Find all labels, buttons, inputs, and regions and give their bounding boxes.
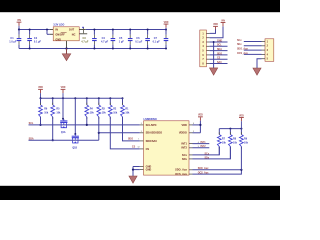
svg-text:OCS_Aux: OCS_Aux bbox=[175, 172, 187, 176]
svg-text:VDD: VDD bbox=[61, 87, 66, 89]
svg-text:GND: GND bbox=[217, 40, 222, 42]
svg-text:SCL: SCL bbox=[29, 122, 34, 125]
svg-text:INT2: INT2 bbox=[181, 146, 187, 150]
svg-text:10k: 10k bbox=[222, 141, 227, 144]
svg-text:SDA/SDI/SDO: SDA/SDI/SDO bbox=[146, 131, 163, 135]
svg-text:10k: 10k bbox=[102, 112, 107, 115]
svg-text:10k: 10k bbox=[90, 112, 95, 115]
svg-text:SDA: SDA bbox=[29, 137, 34, 140]
svg-text:SCx: SCx bbox=[182, 153, 188, 157]
svg-text:OCS_Aux: OCS_Aux bbox=[237, 52, 248, 55]
svg-text:SDO: SDO bbox=[217, 53, 222, 55]
svg-text:NC: NC bbox=[72, 33, 76, 36]
svg-text:VDD: VDD bbox=[38, 87, 43, 89]
svg-text:4.7 µF: 4.7 µF bbox=[101, 40, 109, 43]
svg-text:4.7 µF: 4.7 µF bbox=[81, 40, 89, 43]
svg-text:SDO_Aux: SDO_Aux bbox=[237, 48, 248, 51]
svg-text:GND: GND bbox=[55, 38, 61, 41]
svg-text:3.3V LDO: 3.3V LDO bbox=[53, 24, 64, 27]
svg-text:INT1: INT1 bbox=[201, 142, 207, 144]
svg-text:SCL: SCL bbox=[217, 45, 222, 47]
svg-text:SCx: SCx bbox=[237, 40, 242, 42]
svg-text:SDx: SDx bbox=[182, 157, 188, 161]
svg-text:ON/OFF: ON/OFF bbox=[55, 33, 65, 36]
svg-text:SCL/SPC: SCL/SPC bbox=[146, 123, 157, 127]
svg-text:INT1: INT1 bbox=[181, 142, 187, 146]
svg-text:SDO_Aux: SDO_Aux bbox=[175, 168, 187, 172]
svg-text:4: 4 bbox=[198, 141, 199, 144]
svg-text:INT2: INT2 bbox=[201, 146, 207, 148]
svg-text:GND: GND bbox=[146, 168, 152, 172]
svg-text:0.1 µF: 0.1 µF bbox=[153, 40, 161, 43]
svg-text:12: 12 bbox=[138, 147, 140, 149]
svg-text:SDA: SDA bbox=[217, 48, 222, 51]
svg-text:VDDIO: VDDIO bbox=[179, 131, 187, 135]
svg-text:SDx: SDx bbox=[237, 44, 242, 46]
svg-text:VDD: VDD bbox=[198, 115, 203, 117]
svg-text:10k: 10k bbox=[113, 112, 118, 115]
svg-text:IN: IN bbox=[55, 29, 58, 32]
svg-text:CS: CS bbox=[132, 147, 136, 149]
svg-text:8: 8 bbox=[193, 123, 194, 125]
svg-text:10k: 10k bbox=[125, 112, 130, 115]
svg-text:1 µF: 1 µF bbox=[119, 40, 125, 43]
svg-text:SA0: SA0 bbox=[217, 61, 222, 64]
svg-text:OUT: OUT bbox=[69, 29, 75, 32]
svg-text:SDO_Aux: SDO_Aux bbox=[198, 167, 209, 170]
svg-text:CS: CS bbox=[146, 147, 150, 151]
svg-text:CS: CS bbox=[217, 58, 221, 60]
svg-text:0.1 µF: 0.1 µF bbox=[135, 40, 143, 43]
svg-text:SDO: SDO bbox=[128, 139, 133, 141]
svg-text:SCx: SCx bbox=[205, 153, 210, 155]
svg-text:0.1 µF: 0.1 µF bbox=[34, 40, 42, 43]
svg-text:1: 1 bbox=[138, 139, 139, 141]
svg-text:10k: 10k bbox=[56, 112, 61, 115]
svg-text:1.0 µF: 1.0 µF bbox=[9, 40, 17, 43]
svg-text:VDD: VDD bbox=[182, 123, 188, 127]
svg-text:LSM6DSO: LSM6DSO bbox=[144, 117, 158, 121]
svg-text:10k: 10k bbox=[244, 141, 249, 144]
svg-text:Q1A: Q1A bbox=[61, 131, 66, 134]
svg-text:Q1B: Q1B bbox=[72, 147, 77, 149]
svg-text:10k: 10k bbox=[233, 141, 238, 144]
svg-text:10k: 10k bbox=[44, 112, 49, 115]
svg-text:9: 9 bbox=[198, 146, 199, 148]
svg-text:SDx: SDx bbox=[205, 157, 210, 159]
svg-text:OCS_Aux: OCS_Aux bbox=[198, 172, 209, 175]
svg-text:5: 5 bbox=[193, 131, 194, 133]
svg-text:SDO/SA0: SDO/SA0 bbox=[146, 139, 158, 143]
